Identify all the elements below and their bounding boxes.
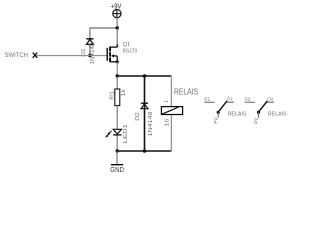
wire D2 branch top rail to bottom rail: [144, 76, 146, 151]
relay coil RELAIS: [161, 76, 198, 151]
D1 triangle: [86, 40, 93, 45]
wire bottom rail to relay: [117, 150, 171, 152]
svg-text:1N4148: 1N4148: [148, 111, 154, 136]
svg-text:16: 16: [164, 118, 170, 126]
D2 cathode bar: [141, 102, 148, 104]
contact arm 2: [258, 101, 267, 113]
pin stub P2: [258, 112, 260, 117]
svg-text:O2: O2: [267, 97, 274, 103]
D1 cathode bar: [86, 38, 93, 40]
transistor Q1: [107, 42, 137, 62]
relay contact 1: [204, 97, 246, 124]
wire coil pin 1 up to top rail: [170, 76, 172, 107]
svg-text:P2: P2: [253, 117, 259, 124]
Q1 source lead: [111, 61, 118, 63]
wire switch net to Q1 gate: [36, 55, 106, 57]
ground GND: [110, 151, 124, 174]
pin stub S1: [204, 101, 214, 103]
svg-text:Q1: Q1: [123, 42, 130, 48]
wire R1 to LED1 anode: [116, 106, 118, 129]
Q1 body arrow: [111, 54, 114, 57]
wire LED1 cathode to bottom rail: [116, 136, 118, 152]
relay contact 2: [244, 97, 286, 124]
svg-text:R1: R1: [109, 91, 115, 100]
wire Q1 source to top rail: [116, 62, 118, 76]
junction Q1 source/body: [116, 60, 119, 63]
pin stub S2: [245, 101, 255, 103]
+9V circle-plus symbol: [113, 10, 121, 18]
junction top rail at D2: [143, 74, 146, 77]
wire to ground symbol: [116, 151, 118, 165]
supply symbol +9V: [111, 3, 122, 17]
ground bar: [111, 164, 123, 166]
junction top rail at R1: [116, 74, 119, 77]
junction +9V node: [116, 26, 119, 29]
wire top rail to R1: [116, 76, 118, 89]
svg-text:RELAIS: RELAIS: [174, 88, 198, 97]
resistor R1: [109, 89, 127, 106]
svg-text:RELAIS: RELAIS: [268, 111, 287, 117]
open-end X of switch net: [33, 53, 38, 58]
pin stub P1: [217, 112, 219, 117]
junction bottom rail at GND: [116, 149, 119, 152]
svg-text:O1: O1: [227, 97, 234, 103]
svg-text:S1: S1: [204, 97, 211, 103]
svg-text:1N4148: 1N4148: [90, 42, 96, 64]
D1 anode lead: [89, 44, 91, 55]
svg-text:RELAIS: RELAIS: [228, 111, 247, 117]
svg-text:1k: 1k: [121, 89, 127, 96]
svg-text:SWITCH: SWITCH: [5, 52, 29, 59]
contact arm 1: [218, 101, 227, 113]
junction D1 anode on switch net: [88, 54, 91, 57]
D2 triangle: [141, 104, 148, 109]
LED LED1: [105, 124, 128, 143]
wire +9V supply drop: [116, 18, 118, 28]
Q1 gate bar: [106, 48, 108, 61]
svg-text:1: 1: [164, 100, 170, 103]
LED1 triangle: [113, 129, 121, 134]
svg-text:S2: S2: [244, 97, 251, 103]
wire coil pin 16 down to bottom rail: [170, 115, 172, 151]
wire top rail to relay: [117, 75, 171, 77]
diode D2: [135, 76, 154, 151]
svg-text:P1: P1: [213, 117, 219, 124]
Q1 drain lead: [111, 46, 118, 48]
LED1 cathode bar: [113, 134, 121, 136]
svg-text:BS170: BS170: [123, 48, 137, 54]
coil diagonal: [162, 107, 179, 114]
svg-text:LED1: LED1: [123, 124, 129, 143]
contact pivot dot 2: [257, 111, 260, 114]
pin stub O2: [267, 101, 274, 103]
R1 body box: [115, 89, 120, 106]
svg-text:D2: D2: [135, 112, 141, 121]
svg-text:GND: GND: [110, 167, 124, 174]
Q1 channel bar: [109, 47, 111, 63]
pin stub O1: [226, 101, 233, 103]
coil body box: [161, 107, 182, 115]
junction bottom rail at D2: [143, 149, 146, 152]
diode D1: [81, 39, 96, 65]
LED1 emission arrows: [108, 131, 111, 134]
wire +9V node to D1 cathode: [90, 28, 117, 38]
contact pivot dot 1: [217, 111, 220, 114]
wire +9V node to Q1 drain: [116, 28, 118, 47]
